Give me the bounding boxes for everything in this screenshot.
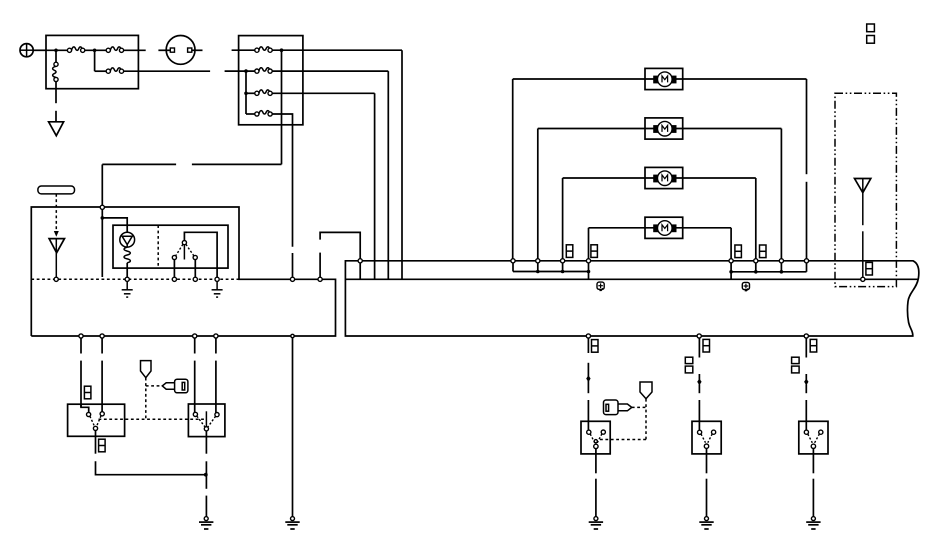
connector: [125, 277, 129, 281]
wire: [512, 79, 514, 259]
wire: [319, 253, 321, 277]
node: [204, 473, 208, 477]
arrowhead: [697, 379, 701, 386]
wire: [126, 263, 128, 277]
connector pair: [735, 245, 742, 258]
window lock switch right: [188, 404, 225, 437]
connector: [861, 277, 865, 281]
relay box: [113, 225, 228, 268]
ground: [589, 517, 603, 529]
wire: [55, 239, 57, 277]
wire: [805, 400, 807, 430]
wire: [805, 374, 807, 381]
wire: [683, 78, 807, 80]
fuse F6: [255, 68, 272, 73]
wire: [246, 92, 255, 94]
connector: [511, 259, 515, 263]
connector pair spaced: [867, 24, 875, 43]
connector: [54, 277, 58, 281]
wire: [862, 179, 864, 226]
wire: [124, 70, 211, 72]
connector: [754, 259, 758, 263]
dashed: [146, 385, 163, 387]
wire: [215, 361, 217, 413]
antenna: [855, 179, 871, 193]
wire: [205, 461, 207, 489]
wire: [513, 78, 645, 80]
wire: [538, 128, 645, 130]
fuse F7: [255, 90, 272, 95]
right motor group tie: [729, 263, 806, 279]
motor M4: [645, 217, 683, 238]
wire: [55, 82, 57, 104]
wire: [46, 49, 67, 51]
antenna unit box dash-dot: [835, 93, 896, 286]
node: [54, 49, 58, 53]
wire: [401, 50, 403, 279]
wire: [194, 361, 196, 413]
motor M3: [645, 167, 683, 188]
wire: [862, 231, 864, 277]
connector: [586, 334, 590, 338]
fuse F8: [255, 111, 272, 116]
connector: [561, 259, 565, 263]
connector: [193, 334, 197, 338]
wire: [272, 49, 402, 51]
dashed: [598, 439, 647, 441]
receiver antenna: [49, 239, 64, 253]
wire: [698, 400, 700, 430]
ground tag G1: [597, 282, 604, 290]
node: [244, 92, 248, 96]
motor M2: [645, 118, 683, 139]
wire: [683, 177, 756, 179]
wire: [698, 384, 700, 393]
wire: [281, 50, 283, 164]
motor M1: [645, 68, 683, 89]
wire: [292, 253, 294, 277]
wire: [806, 182, 808, 259]
key fob: [38, 186, 75, 194]
wire: [730, 228, 732, 259]
wire: [215, 338, 217, 353]
connector pair: [866, 262, 873, 275]
ground: [199, 517, 213, 529]
battery: [20, 44, 33, 57]
ground: [285, 517, 299, 529]
wire: [158, 49, 170, 51]
wire: [102, 163, 176, 165]
key lock: [640, 382, 652, 399]
wire: [812, 449, 814, 474]
fuse F5: [255, 47, 272, 52]
dashed: [645, 399, 647, 440]
arrowhead: [54, 231, 59, 237]
ground: [212, 281, 223, 297]
wire: [292, 338, 294, 517]
ground: [699, 517, 713, 529]
connector: [291, 334, 294, 337]
wire jumper: [320, 232, 360, 279]
wire: [101, 361, 103, 413]
wire: [192, 49, 203, 51]
wire: [587, 338, 589, 353]
wire: [595, 479, 597, 517]
wire: [101, 164, 103, 205]
wire: [194, 260, 196, 277]
wire: [173, 260, 175, 277]
wire: [95, 70, 107, 72]
wire: [272, 92, 374, 94]
wire: [272, 70, 388, 72]
connector: [172, 277, 176, 281]
divider dashed: [157, 225, 159, 268]
wire: [587, 400, 589, 430]
wire: [246, 113, 255, 115]
key lock: [141, 361, 152, 378]
socket: [166, 36, 195, 65]
connector: [79, 334, 83, 338]
fuse F2: [106, 47, 123, 52]
wire: [245, 71, 247, 114]
wire: [192, 163, 282, 165]
power window switch 1: [581, 421, 610, 454]
signal dashed: [55, 194, 57, 230]
node: [93, 49, 97, 53]
wire: [80, 338, 82, 353]
dashed: [632, 406, 646, 408]
connector: [215, 277, 219, 281]
fuse F3: [53, 62, 58, 81]
wire: [101, 338, 103, 353]
connector pair: [99, 439, 106, 452]
connector: [804, 259, 808, 263]
bus: [345, 278, 918, 280]
wire: [698, 338, 700, 357]
arrowhead: [586, 375, 590, 382]
wire: [232, 49, 255, 51]
relay switch: [172, 241, 197, 260]
wire: [537, 129, 539, 259]
ground: [122, 281, 133, 297]
ground arrow: [49, 122, 64, 136]
wire: [225, 70, 255, 72]
wire: [587, 363, 589, 378]
wire: [387, 71, 389, 279]
wire: [194, 338, 196, 353]
fuse F1: [67, 47, 84, 52]
connector pair: [84, 386, 91, 399]
wire: [755, 178, 757, 259]
connector pair: [703, 339, 710, 352]
key: [162, 379, 188, 393]
connector pair: [810, 339, 817, 352]
wire: [589, 227, 646, 229]
arrowhead: [804, 379, 808, 386]
connector pair: [592, 340, 599, 353]
connector: [290, 277, 294, 281]
wire: [595, 449, 597, 474]
wire: [184, 232, 217, 277]
linkage dashed: [99, 418, 205, 420]
wire: [205, 496, 207, 517]
main harness box: [345, 261, 918, 336]
connector: [358, 259, 362, 263]
wire: [55, 50, 57, 62]
connector pair: [566, 245, 573, 258]
indicator lamp: [120, 232, 135, 247]
wire: [562, 178, 564, 259]
power window switch 3: [799, 421, 828, 454]
wire: [102, 218, 127, 232]
wire: [588, 228, 590, 259]
connector pair spaced: [685, 357, 693, 373]
wire: [683, 128, 782, 130]
wire: [205, 431, 207, 454]
wire: [805, 338, 807, 357]
wire: [806, 79, 808, 174]
wire: [272, 114, 292, 247]
node: [244, 69, 248, 73]
wire: [80, 361, 82, 407]
fuse box 2: [239, 36, 303, 125]
connector: [193, 277, 197, 281]
wire: [706, 479, 708, 517]
wire: [563, 177, 645, 179]
wire: [124, 49, 146, 51]
node: [101, 216, 105, 220]
wire battery to fuse box: [33, 49, 46, 51]
dashed: [145, 378, 147, 420]
connector: [536, 259, 540, 263]
window lock switch left: [68, 404, 125, 436]
wire: [101, 209, 103, 277]
connector: [779, 259, 783, 263]
power window switch 2: [692, 421, 721, 454]
connector: [586, 259, 590, 263]
wire: [805, 384, 807, 393]
wire: [698, 374, 700, 381]
connector: [214, 334, 218, 338]
wire: [374, 93, 376, 279]
wire: [683, 227, 731, 229]
wire: [95, 431, 97, 454]
wire: [94, 50, 96, 71]
key: [604, 400, 632, 415]
connector: [804, 334, 808, 338]
connector: [100, 334, 104, 338]
wire: [812, 479, 814, 517]
left motor group tie: [513, 263, 590, 279]
connector: [697, 334, 701, 338]
connector pair spaced: [792, 357, 800, 373]
connector: [100, 205, 104, 209]
wire: [96, 461, 206, 474]
wire: [706, 448, 708, 473]
fuse F4: [106, 68, 123, 73]
wire: [85, 49, 106, 51]
wire: [55, 111, 57, 122]
control unit box: [31, 207, 335, 336]
node: [280, 48, 284, 52]
connector: [729, 259, 733, 263]
wire: [587, 381, 589, 394]
connector pair: [760, 245, 767, 258]
connector pair: [591, 245, 598, 258]
connector: [318, 277, 322, 281]
ground tag G2: [742, 282, 749, 290]
resistor: [124, 247, 130, 263]
ground: [806, 517, 820, 529]
wire: [780, 129, 782, 259]
fuse box 1: [46, 35, 138, 88]
bus dashed: [31, 278, 239, 280]
